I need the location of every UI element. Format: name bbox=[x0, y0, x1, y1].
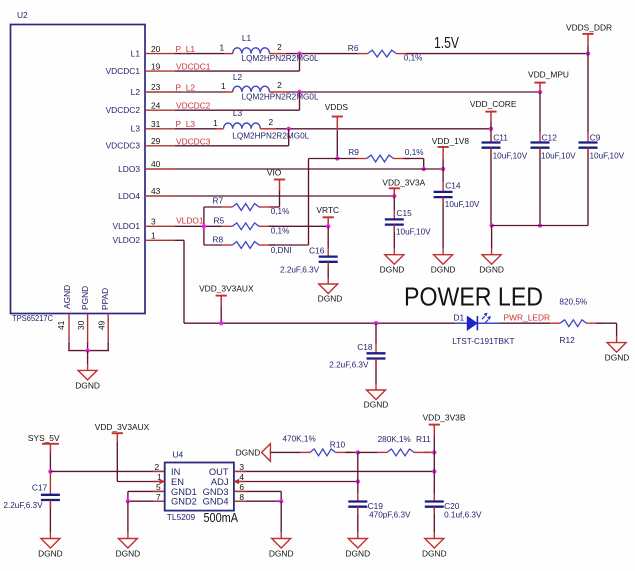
svg-text:10uF,10V: 10uF,10V bbox=[396, 227, 431, 236]
wire VLDO1 pin3 bbox=[175, 225, 222, 227]
svg-text:L2: L2 bbox=[233, 72, 243, 82]
svg-text:0,1%: 0,1% bbox=[404, 53, 423, 62]
svg-text:6: 6 bbox=[239, 482, 244, 492]
wire C11 to DGND bbox=[491, 226, 493, 249]
resistor R12 bbox=[550, 322, 560, 324]
LED D1 triangle bbox=[467, 316, 477, 330]
ground DGND under C15 bbox=[385, 255, 404, 265]
svg-text:0,1%: 0,1% bbox=[405, 148, 424, 157]
svg-text:30: 30 bbox=[76, 320, 86, 330]
svg-text:2: 2 bbox=[269, 117, 274, 127]
inductor L2 winding bbox=[233, 86, 270, 92]
IC U2 TPS65217C body bbox=[11, 25, 146, 314]
LED D1 cathode bar bbox=[476, 316, 478, 330]
U2 pin 30 PGND stub bbox=[87, 314, 89, 345]
junction C12/ground rail bbox=[538, 223, 542, 227]
svg-text:DGND: DGND bbox=[364, 400, 389, 410]
wire down to DGND right bbox=[616, 323, 618, 336]
svg-text:TPS65217C: TPS65217C bbox=[12, 313, 53, 323]
svg-text:R11: R11 bbox=[416, 434, 431, 444]
U2 pin 19 VDCDC1 stub bbox=[145, 70, 175, 72]
svg-text:LDO3: LDO3 bbox=[118, 164, 140, 174]
wire VRTC down to C16 bbox=[327, 226, 329, 248]
wire C9 top bbox=[587, 54, 589, 132]
svg-text:OUT: OUT bbox=[209, 467, 229, 477]
wire C12 top bbox=[539, 92, 541, 132]
svg-text:VDCDC1: VDCDC1 bbox=[176, 62, 211, 72]
svg-text:C20: C20 bbox=[444, 501, 460, 511]
ground DGND under C19 bbox=[348, 539, 367, 549]
svg-text:DGND: DGND bbox=[75, 380, 100, 390]
svg-text:1: 1 bbox=[213, 118, 218, 128]
svg-text:AGND: AGND bbox=[62, 285, 72, 309]
inductor L3 lead right bbox=[260, 128, 276, 130]
svg-text:500mA: 500mA bbox=[204, 510, 239, 525]
power symbol VDD_3V3AUX (top) bbox=[216, 295, 227, 297]
junction VRTC/C16 bbox=[326, 224, 330, 228]
svg-text:U4: U4 bbox=[173, 450, 184, 460]
svg-text:4: 4 bbox=[239, 472, 244, 482]
svg-text:R6: R6 bbox=[348, 43, 359, 53]
wire R6 to VDDS_DDR bbox=[407, 53, 589, 55]
wire VDD_3V3B branch down bbox=[433, 452, 435, 471]
wire VDCDC3 pin29 bbox=[175, 145, 289, 147]
U2 pin 49 PPAD stub bbox=[107, 314, 109, 345]
svg-text:DGND: DGND bbox=[318, 293, 343, 303]
svg-text:VDD_3V3AUX: VDD_3V3AUX bbox=[95, 422, 150, 432]
svg-text:49: 49 bbox=[97, 320, 107, 330]
power symbol VRTC bbox=[323, 216, 334, 218]
svg-text:2: 2 bbox=[277, 42, 282, 52]
U4 pin 8 stub bbox=[234, 500, 246, 502]
wire R8 right to VDDS branch bbox=[269, 244, 309, 246]
svg-text:IN: IN bbox=[171, 467, 180, 477]
svg-text:1: 1 bbox=[220, 43, 225, 53]
U4 pin 3 stub bbox=[234, 470, 246, 472]
svg-text:1: 1 bbox=[151, 231, 156, 241]
svg-text:10uF,10V: 10uF,10V bbox=[493, 151, 528, 160]
ground DGND under U2 bbox=[78, 370, 97, 380]
svg-text:POWER LED: POWER LED bbox=[404, 284, 543, 312]
ground DGND under C14 bbox=[434, 255, 453, 265]
power symbol VDD_1V8 bbox=[438, 146, 449, 148]
junction VDD_3V3A bbox=[392, 194, 396, 198]
wire GND3 right bbox=[234, 490, 281, 492]
svg-text:0,DNI: 0,DNI bbox=[271, 246, 292, 255]
svg-text:C18: C18 bbox=[357, 342, 373, 352]
svg-text:2.2uF,6.3V: 2.2uF,6.3V bbox=[280, 266, 320, 275]
U2 pin 43 LDO4 stub bbox=[145, 195, 175, 197]
wire LDO4 pin43 to VDD_3V3A bbox=[175, 195, 394, 197]
wire C18 to DGND bbox=[375, 359, 377, 385]
svg-text:VDDS_DDR: VDDS_DDR bbox=[566, 22, 612, 32]
svg-text:8: 8 bbox=[239, 492, 244, 502]
svg-text:VDD_3V3AUX: VDD_3V3AUX bbox=[199, 284, 254, 294]
svg-text:1: 1 bbox=[221, 81, 226, 91]
svg-text:3: 3 bbox=[239, 462, 244, 472]
svg-text:D1: D1 bbox=[454, 313, 465, 323]
wire R11 to VDD_3V3B bbox=[424, 451, 434, 453]
wire VDD_1V8 down to C14 bbox=[442, 169, 444, 182]
U4 pin 5 stub bbox=[153, 490, 165, 492]
svg-text:DGND: DGND bbox=[269, 548, 294, 558]
wire GND2 left bbox=[128, 500, 165, 502]
inductor L3 winding bbox=[224, 123, 261, 129]
svg-text:41: 41 bbox=[56, 320, 66, 330]
junction C11/ground rail bbox=[489, 223, 493, 227]
junction C18/LED rail bbox=[374, 321, 378, 325]
junction GND1-GND2 bbox=[126, 499, 130, 503]
svg-text:0,1%: 0,1% bbox=[271, 226, 290, 235]
svg-text:LTST-C191TBKT: LTST-C191TBKT bbox=[452, 337, 514, 346]
wire C11 bottom to ground rail bbox=[490, 148, 492, 226]
wire C11 top bbox=[490, 129, 492, 143]
svg-text:C14: C14 bbox=[445, 181, 461, 191]
wire R9 down to VDD_1V8 net bbox=[423, 159, 425, 170]
wire C16 to DGND bbox=[327, 262, 329, 278]
wire VDCDC2 pin24 bbox=[175, 109, 300, 111]
wire ADJ branch down bbox=[357, 452, 359, 481]
junction VDD_MPU/C12 bbox=[538, 90, 542, 94]
svg-text:VDCDC2: VDCDC2 bbox=[176, 101, 211, 111]
svg-text:L3: L3 bbox=[233, 108, 243, 118]
power symbol VDDS_DDR bbox=[582, 33, 593, 35]
ground DGND under C11 bbox=[482, 255, 501, 265]
junction VDDS/R9 bbox=[335, 156, 339, 160]
inductor L2 lead left bbox=[225, 91, 233, 93]
svg-text:43: 43 bbox=[151, 186, 161, 196]
wire OUT right bbox=[234, 470, 434, 472]
wire AGND down bbox=[68, 343, 70, 351]
wire R12 to corner bbox=[596, 322, 616, 324]
U2 pin 3 VLDO1 stub bbox=[145, 225, 175, 227]
svg-text:0.1uf,6.3V: 0.1uf,6.3V bbox=[444, 511, 482, 520]
wire LED to R12 bbox=[500, 322, 550, 324]
svg-text:DGND: DGND bbox=[431, 264, 456, 274]
wire VDD_3V3A down to C15 bbox=[393, 196, 395, 210]
svg-text:C19: C19 bbox=[368, 501, 384, 511]
junction L3/VDCDC3 bbox=[287, 127, 291, 131]
svg-text:L3: L3 bbox=[131, 124, 141, 134]
capacitor C12 bbox=[531, 141, 550, 143]
DGND off-page arrow symbol bbox=[262, 444, 271, 462]
svg-text:VLDO2: VLDO2 bbox=[113, 235, 141, 245]
svg-text:820,5%: 820,5% bbox=[559, 298, 587, 307]
wire LED rail bbox=[184, 322, 455, 324]
svg-text:GND1: GND1 bbox=[171, 487, 197, 497]
wire ADJ branch to C19 bbox=[357, 482, 359, 494]
svg-text:EN: EN bbox=[171, 477, 184, 487]
svg-text:40: 40 bbox=[151, 159, 161, 169]
wire to DGND under U2 bbox=[87, 351, 89, 364]
svg-text:2.2uF,6.3V: 2.2uF,6.3V bbox=[3, 501, 43, 510]
resistor R9 bbox=[357, 158, 367, 160]
U2 pin 31 L3 stub bbox=[145, 128, 175, 130]
wire C9 bottom bbox=[587, 148, 589, 226]
svg-text:24: 24 bbox=[151, 100, 161, 110]
U2 pin 1 VLDO2 stub bbox=[145, 239, 175, 241]
svg-text:P_L1: P_L1 bbox=[176, 44, 196, 54]
svg-text:GND2: GND2 bbox=[171, 497, 197, 507]
U2 pin 24 VDCDC2 stub bbox=[145, 109, 175, 111]
svg-text:3: 3 bbox=[151, 217, 156, 227]
wire R5 right to VRTC bbox=[269, 225, 328, 227]
svg-text:VLDO1: VLDO1 bbox=[113, 221, 141, 231]
svg-text:SYS_5V: SYS_5V bbox=[28, 433, 60, 443]
svg-text:C16: C16 bbox=[309, 245, 325, 255]
junction VDD_3V3AUX/LED rail bbox=[219, 321, 223, 325]
svg-text:C9: C9 bbox=[590, 133, 601, 143]
resistor R7 bbox=[222, 206, 232, 208]
resistor R6 bbox=[358, 53, 368, 55]
wire C17 down bbox=[49, 471, 51, 494]
resistor R5 bbox=[222, 225, 232, 227]
ground DGND under C18 bbox=[367, 390, 386, 400]
svg-text:2: 2 bbox=[277, 80, 282, 90]
wire L2 out to VDD_MPU bbox=[285, 91, 540, 93]
svg-text:ADJ: ADJ bbox=[211, 477, 229, 487]
U4 pin 1 stub bbox=[153, 481, 165, 483]
power symbol VDD_3V3AUX (bottom) bbox=[112, 432, 123, 434]
junction R10/R11/ADJ bbox=[356, 450, 360, 454]
wire L1 pin20 to inductor L1 bbox=[175, 53, 225, 55]
wire R10 to junction bbox=[346, 451, 358, 453]
ground rail joining C11 C12 C9 bbox=[492, 225, 588, 227]
junction VDD_CORE/C11 bbox=[489, 127, 493, 131]
svg-text:VDD_1V8: VDD_1V8 bbox=[432, 136, 470, 146]
capacitor C17 bbox=[41, 494, 60, 496]
svg-text:VLDO1: VLDO1 bbox=[176, 216, 204, 226]
svg-text:PPAD: PPAD bbox=[100, 288, 110, 310]
svg-text:DGND: DGND bbox=[380, 264, 405, 274]
power symbol VDD_3V3B bbox=[429, 424, 440, 426]
svg-text:VDCDC2: VDCDC2 bbox=[106, 105, 141, 115]
junction OUT/VDD_3V3B branch bbox=[432, 469, 436, 473]
IC U4 TL5209 body bbox=[165, 463, 234, 511]
U2 pin 20 L1 stub bbox=[145, 53, 175, 55]
svg-text:VIO: VIO bbox=[267, 167, 282, 177]
wire R8 left bbox=[204, 244, 222, 246]
wire GND1 left bbox=[128, 490, 165, 492]
U4 pin 4 stub bbox=[234, 481, 246, 483]
U4 pin 7 stub bbox=[153, 500, 165, 502]
capacitor C20 bbox=[425, 500, 444, 502]
svg-text:DGND: DGND bbox=[38, 548, 63, 558]
wire C19 to DGND bbox=[357, 507, 359, 532]
inductor L1 lead right bbox=[270, 53, 286, 55]
wire PGND down bbox=[87, 343, 89, 351]
power symbol VDDS bbox=[332, 116, 343, 118]
U4 pin 2 stub bbox=[153, 470, 165, 472]
svg-text:29: 29 bbox=[151, 136, 161, 146]
wire VDCDC2 up to L2 out bbox=[299, 92, 301, 110]
svg-text:VDCDC3: VDCDC3 bbox=[106, 141, 141, 151]
wire VDDS junction left bbox=[309, 158, 338, 160]
svg-text:U2: U2 bbox=[17, 10, 28, 20]
svg-text:2.2uF,6.3V: 2.2uF,6.3V bbox=[329, 361, 369, 370]
svg-text:DGND: DGND bbox=[236, 448, 261, 458]
ground DGND under C20 bbox=[425, 539, 444, 549]
svg-text:C17: C17 bbox=[32, 482, 48, 492]
svg-text:DGND: DGND bbox=[345, 548, 370, 558]
inductor L1 lead left bbox=[225, 53, 233, 55]
junction VDD_1V8 bbox=[441, 167, 445, 171]
capacitor C19 bbox=[348, 500, 367, 502]
wire DGND arrow to R10 bbox=[270, 451, 300, 453]
svg-text:20: 20 bbox=[151, 44, 161, 54]
svg-text:470pF,6.3V: 470pF,6.3V bbox=[369, 511, 411, 520]
svg-text:VRTC: VRTC bbox=[316, 205, 339, 215]
U2 pin 23 L2 stub bbox=[145, 91, 175, 93]
svg-text:DGND: DGND bbox=[605, 352, 630, 362]
wire SYS_5V to U4 IN bbox=[50, 470, 164, 472]
svg-text:10uF,10V: 10uF,10V bbox=[541, 151, 576, 160]
wire PPAD down bbox=[107, 343, 109, 351]
svg-text:VDD_3V3B: VDD_3V3B bbox=[423, 413, 466, 423]
U4 EN input arrow bbox=[160, 479, 166, 485]
wire junction to R11 bbox=[358, 451, 377, 453]
svg-text:TL5209: TL5209 bbox=[167, 512, 196, 522]
svg-text:LDO4: LDO4 bbox=[118, 191, 140, 201]
LED D1 light arrow 2 bbox=[485, 320, 488, 323]
svg-text:L1: L1 bbox=[242, 33, 252, 43]
junction VLDO1/R5 bbox=[202, 224, 206, 228]
svg-text:470K,1%: 470K,1% bbox=[283, 435, 316, 444]
svg-text:2: 2 bbox=[155, 462, 160, 472]
capacitor C11 bbox=[482, 141, 501, 143]
inductor L2 lead right bbox=[270, 91, 286, 93]
wire C15 to DGND bbox=[393, 225, 395, 248]
svg-text:LQM2HPN2R2MG0L: LQM2HPN2R2MG0L bbox=[242, 54, 319, 63]
ground DGND under U4 left bbox=[118, 539, 137, 549]
U4 ADJ input arrow bbox=[233, 479, 239, 485]
wire GND junction to DGND bbox=[127, 501, 129, 532]
junction SYS_5V/C17/IN bbox=[48, 469, 52, 473]
wire GND4 to DGND bbox=[280, 501, 282, 532]
U4 pin 6 stub bbox=[234, 490, 246, 492]
wire VDCDC3 up to L3 out bbox=[288, 129, 290, 146]
wire VDD_3V3AUX down to EN bbox=[116, 443, 118, 482]
capacitor C18 bbox=[367, 352, 386, 354]
inductor L3 lead left bbox=[216, 128, 224, 130]
wire R7 row bbox=[204, 206, 222, 208]
inductor L1 winding bbox=[233, 48, 270, 54]
LED D1 anode lead bbox=[455, 322, 468, 324]
svg-text:DGND: DGND bbox=[116, 548, 141, 558]
junction VDDS_DDR/C9 bbox=[586, 51, 590, 55]
capacitor C9 bbox=[579, 141, 598, 143]
svg-text:GND3: GND3 bbox=[203, 487, 229, 497]
vertical wire joining R7 R5 R8 left ends bbox=[203, 207, 205, 245]
svg-text:PGND: PGND bbox=[80, 286, 90, 310]
svg-text:VDCDC3: VDCDC3 bbox=[176, 136, 211, 146]
svg-text:DGND: DGND bbox=[422, 548, 447, 558]
svg-text:P_L2: P_L2 bbox=[176, 82, 196, 92]
svg-text:10uF,10V: 10uF,10V bbox=[590, 151, 625, 160]
capacitor C14 bbox=[434, 191, 453, 193]
U2 pin 40 LDO3 stub bbox=[145, 168, 175, 170]
svg-text:C15: C15 bbox=[396, 208, 412, 218]
resistor R10 bbox=[300, 451, 310, 453]
junction R9/LDO3 line bbox=[422, 167, 426, 171]
ground DGND under C16 bbox=[319, 284, 338, 294]
svg-text:L2: L2 bbox=[131, 87, 141, 97]
svg-text:R8: R8 bbox=[212, 235, 223, 245]
svg-text:C11: C11 bbox=[493, 133, 508, 143]
junction AGND-PGND-PPAD bbox=[85, 348, 89, 352]
svg-text:L1: L1 bbox=[131, 49, 141, 59]
wire GND3 down bbox=[280, 491, 282, 501]
wire EN to U4 bbox=[117, 481, 164, 483]
resistor R11 bbox=[377, 451, 387, 453]
junction L2/VDCDC2 bbox=[297, 90, 301, 94]
svg-text:GND4: GND4 bbox=[203, 497, 229, 507]
wire R9 left bbox=[337, 158, 356, 160]
svg-text:7: 7 bbox=[156, 492, 161, 502]
wire VLDO2 down bbox=[183, 240, 185, 323]
svg-text:PWR_LEDR: PWR_LEDR bbox=[504, 313, 551, 323]
junction L1/VDCDC1 bbox=[297, 51, 301, 55]
wire VDDS branch down to R8 bbox=[308, 159, 310, 246]
svg-text:R9: R9 bbox=[348, 147, 359, 157]
svg-text:0,1%: 0,1% bbox=[271, 207, 290, 216]
wire VDCDC1 pin19 bbox=[175, 70, 300, 72]
wire C14 to DGND bbox=[442, 197, 444, 248]
wire L3 pin31 to inductor L3 bbox=[175, 128, 216, 130]
power symbol VDD_CORE bbox=[485, 111, 496, 113]
power symbol VIO bbox=[274, 179, 285, 181]
wire C20 to DGND bbox=[433, 507, 435, 532]
junction GND3-GND4 bbox=[279, 499, 283, 503]
LED D1 light arrow 1 bbox=[482, 316, 485, 319]
svg-text:R7: R7 bbox=[212, 196, 223, 206]
svg-text:R5: R5 bbox=[214, 216, 225, 226]
wire GND4 right bbox=[234, 500, 281, 502]
ground DGND under U4 middle bbox=[272, 539, 291, 549]
capacitor C15 bbox=[385, 218, 404, 220]
svg-text:280K,1%: 280K,1% bbox=[378, 435, 411, 444]
wire LDO3 pin40 to VDD_1V8 bbox=[175, 168, 443, 170]
capacitor C16 bbox=[319, 255, 338, 257]
wire ADJ right bbox=[234, 481, 358, 483]
U2 pin 29 VDCDC3 stub bbox=[145, 145, 175, 147]
svg-text:VDDS: VDDS bbox=[325, 102, 349, 112]
svg-text:R10: R10 bbox=[330, 440, 346, 450]
wire L1 out to R6 bbox=[285, 53, 357, 55]
svg-text:31: 31 bbox=[151, 119, 161, 129]
wire L2 pin23 to inductor L2 bbox=[175, 91, 225, 93]
svg-text:P_L3: P_L3 bbox=[176, 119, 196, 129]
wire GND1 down to GND2 bbox=[127, 491, 129, 501]
svg-text:LQM2HPN2R2MG0L: LQM2HPN2R2MG0L bbox=[242, 92, 319, 101]
ground DGND under R12 bbox=[607, 343, 626, 353]
junction R11/VDD_3V3B bbox=[432, 450, 436, 454]
svg-text:DGND: DGND bbox=[479, 264, 504, 274]
wire OUT branch to C20 bbox=[433, 471, 435, 493]
power symbol VDD_MPU bbox=[534, 82, 545, 84]
junction ADJ/R10 branch bbox=[356, 479, 360, 483]
svg-text:VDD_3V3A: VDD_3V3A bbox=[382, 178, 425, 188]
svg-text:C12: C12 bbox=[542, 133, 558, 143]
resistor R8 bbox=[222, 244, 232, 246]
wire VDCDC1 up to L1 out bbox=[299, 54, 301, 72]
U2 pin 41 AGND stub bbox=[68, 314, 70, 345]
wire joining AGND/PGND/PPAD bbox=[68, 350, 109, 352]
wire VLDO2 pin1 bbox=[175, 239, 184, 241]
svg-text:23: 23 bbox=[151, 82, 161, 92]
svg-text:R12: R12 bbox=[559, 335, 575, 345]
svg-text:19: 19 bbox=[151, 61, 161, 71]
